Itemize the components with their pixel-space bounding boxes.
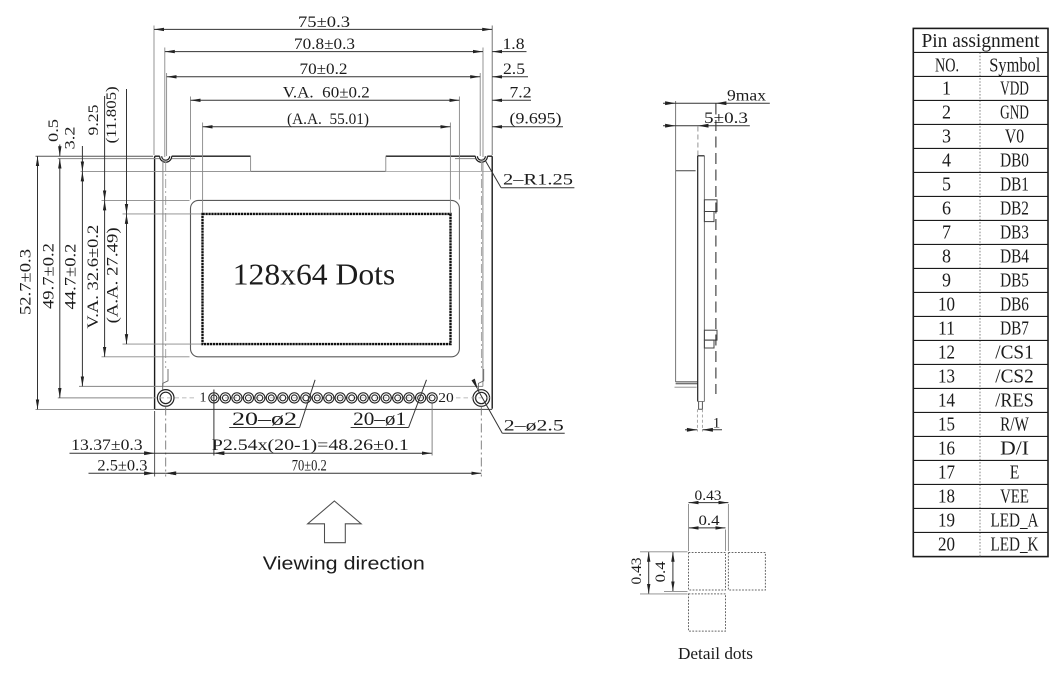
extension line VA right [458, 97, 460, 200]
pin strip below PCB [699, 402, 703, 410]
extension line VA left [190, 97, 192, 200]
svg-text:0.4: 0.4 [699, 513, 721, 529]
recess step right [385, 156, 387, 171]
svg-text:70.8±0.3: 70.8±0.3 [294, 36, 355, 53]
PIN-TABLE [913, 28, 1048, 556]
dim line V.A. 32.6±0.2 [104, 200, 106, 356]
svg-text:Pin assignment: Pin assignment [922, 30, 1040, 52]
dim 1 pin thickness [685, 429, 697, 431]
dot square 3 [689, 594, 726, 631]
extension line AA right [449, 123, 451, 214]
svg-text:/CS2: /CS2 [995, 365, 1033, 387]
svg-text:0.43: 0.43 [695, 488, 722, 504]
svg-text:19: 19 [938, 509, 955, 531]
svg-text:7.2: 7.2 [510, 85, 532, 102]
mounting hole left [157, 390, 174, 407]
dim (A.A. 55.01) [203, 126, 451, 128]
extension line glass right [479, 73, 481, 156]
svg-text:(A.A. 27.49): (A.A. 27.49) [105, 227, 122, 323]
svg-text:NO.: NO. [935, 54, 959, 76]
svg-text:E: E [1010, 461, 1020, 483]
svg-text:1.8: 1.8 [503, 36, 525, 53]
extension PCB top to left [36, 155, 154, 157]
svg-text:3.2: 3.2 [63, 127, 79, 150]
svg-text:20: 20 [438, 391, 454, 406]
PCB front extension up [697, 127, 699, 156]
bezel top flange [676, 170, 696, 172]
svg-text:2–ø2.5: 2–ø2.5 [504, 418, 564, 435]
dim 0.43 left [648, 552, 650, 594]
dim 13.37±0.3 [70, 452, 214, 454]
extension VA bottom left [102, 356, 190, 358]
svg-text:13: 13 [938, 365, 955, 387]
svg-text:20: 20 [938, 533, 955, 555]
dim 70±0.2 bottom [166, 472, 482, 474]
svg-text:(9.695): (9.695) [510, 110, 562, 127]
svg-text:9max: 9max [727, 88, 766, 105]
DETAIL-DOTS [629, 488, 765, 663]
svg-text:VDD: VDD [1000, 77, 1029, 99]
svg-text:2: 2 [942, 101, 951, 123]
dim 2.5 [492, 76, 528, 78]
svg-text:Symbol: Symbol [989, 54, 1040, 76]
svg-text:DB1: DB1 [1000, 173, 1029, 195]
bezel top edge segments [58, 158, 475, 160]
dim line 44.7±0.2 [81, 171, 83, 386]
svg-text:DB6: DB6 [1000, 293, 1029, 315]
A.A. active-area bold dotted rect [203, 214, 451, 344]
svg-text:8: 8 [942, 245, 951, 267]
dim V.A. 60±0.2 [191, 99, 460, 101]
svg-text:V.A. 32.6±0.2: V.A. 32.6±0.2 [85, 225, 102, 329]
extension PCB bottom to left [36, 408, 155, 410]
pin extension dotted right [701, 409, 703, 431]
viewing direction arrow [308, 501, 362, 543]
extension pin20 down [431, 404, 433, 456]
svg-text:/RES: /RES [995, 389, 1033, 411]
dim 75±0.3 [154, 28, 492, 30]
svg-text:2–R1.25: 2–R1.25 [503, 172, 573, 189]
extension pin1 down [213, 390, 215, 456]
FRONT-VIEW [58, 156, 492, 409]
extension line PCB right [491, 26, 493, 156]
svg-text:1: 1 [200, 391, 207, 406]
dim line 0.5 upper [59, 145, 61, 157]
PCB front face [697, 156, 699, 402]
svg-text:0.4: 0.4 [653, 561, 669, 583]
svg-text:DB4: DB4 [1000, 245, 1029, 267]
svg-text:20–ø2: 20–ø2 [232, 409, 297, 430]
bezel tab upper [704, 200, 717, 222]
extension VA top left [102, 199, 190, 201]
svg-text:1: 1 [942, 77, 951, 99]
TOP-DIMS [154, 14, 574, 213]
extension AA bottom left [123, 343, 202, 345]
bezel right edge [482, 159, 484, 387]
svg-text:18: 18 [938, 485, 955, 507]
svg-text:5: 5 [942, 173, 951, 195]
dim line 49.7±0.2 [59, 159, 61, 398]
PCB right edge [491, 156, 493, 409]
svg-text:(A.A. 55.01): (A.A. 55.01) [287, 111, 369, 128]
svg-text:70±0.2: 70±0.2 [292, 457, 327, 474]
svg-text:LED_K: LED_K [991, 533, 1039, 555]
svg-text:2.5±0.3: 2.5±0.3 [97, 457, 147, 474]
dim 0.43 top [689, 502, 729, 504]
dim 9max [663, 102, 770, 104]
hole centerline jog right [478, 369, 483, 390]
dim 70±0.2 top [167, 76, 481, 78]
svg-text:D/I: D/I [1000, 437, 1029, 459]
svg-text:P2.54x(20-1)=48.26±0.1: P2.54x(20-1)=48.26±0.1 [212, 437, 409, 454]
bezel left edge [162, 159, 164, 387]
mounting hole right [473, 390, 490, 407]
hole vertical centerline left [165, 162, 167, 368]
svg-text:9.25: 9.25 [86, 105, 102, 136]
svg-text:12: 12 [938, 341, 955, 363]
centerline dashed [715, 104, 717, 395]
dim 5±0.3 [663, 125, 750, 127]
dim 2.5±0.3 [89, 472, 166, 474]
svg-text:20–ø1: 20–ø1 [353, 409, 406, 430]
top middle recess line [251, 170, 386, 172]
dim line A.A. 27.49 [126, 214, 128, 344]
svg-text:52.7±0.3: 52.7±0.3 [18, 249, 35, 315]
dim line 52.7±0.3 [37, 156, 39, 409]
svg-text:VEE: VEE [1000, 485, 1029, 507]
LEFT-DIMS [18, 86, 202, 409]
3.2 feature line right part [386, 170, 492, 172]
svg-text:DB0: DB0 [1000, 149, 1029, 171]
svg-text:11: 11 [938, 317, 955, 339]
PCB bottom edge [155, 408, 493, 410]
svg-text:GND: GND [1000, 101, 1029, 123]
label 2-R1.25 [501, 187, 574, 189]
hole centerline jog left [163, 369, 168, 390]
extension AA top left [123, 213, 202, 215]
svg-text:2.5: 2.5 [503, 61, 525, 78]
svg-text:3: 3 [942, 125, 951, 147]
bezel bottom flange lower line [675, 386, 697, 388]
recess step left [250, 156, 252, 171]
extension line PCB left [153, 26, 155, 156]
svg-text:17: 17 [938, 461, 955, 483]
hole vertical centerline right [480, 162, 482, 368]
ext lines left dims [640, 552, 688, 594]
svg-text:DB3: DB3 [1000, 221, 1029, 243]
bezel bottom edge [79, 385, 483, 387]
pin row centerline [58, 397, 490, 399]
label 20-ø2 [229, 427, 299, 429]
svg-text:13.37±0.3: 13.37±0.3 [71, 437, 143, 454]
svg-text:9: 9 [942, 269, 951, 291]
svg-text:V0: V0 [1005, 125, 1024, 147]
svg-text:DB7: DB7 [1000, 317, 1029, 339]
extension hole left down [165, 407, 167, 477]
extension line bezel right [482, 48, 484, 158]
BOTTOM-DIMS [70, 379, 565, 477]
extension line glass left [166, 73, 168, 156]
dim P2.54x(20-1)=48.26±0.1 [214, 452, 432, 454]
dim (9.695) [492, 126, 563, 128]
svg-text:6: 6 [942, 197, 951, 219]
table outer border [913, 28, 1048, 556]
svg-text:4: 4 [942, 149, 951, 171]
svg-text:15: 15 [938, 413, 955, 435]
ext lines top dims [689, 504, 729, 551]
svg-text:R/W: R/W [1000, 413, 1029, 435]
dim line 11.805 upper [126, 89, 128, 214]
label 20-ø1 [351, 427, 409, 429]
svg-text:10: 10 [938, 293, 955, 315]
svg-text:7: 7 [942, 221, 951, 243]
dim 0.4 left [672, 552, 674, 592]
PCB left edge [154, 156, 156, 409]
table column divider [979, 52, 981, 556]
label 2-ø2.5 [502, 432, 564, 434]
extension line AA left [202, 123, 204, 214]
svg-text:16: 16 [938, 437, 955, 459]
PCB outline top edge [155, 155, 493, 157]
svg-text:70±0.2: 70±0.2 [300, 61, 348, 78]
svg-text:Viewing direction: Viewing direction [263, 553, 425, 574]
PCB bottom edge [698, 401, 705, 403]
extension hole right down [480, 407, 482, 477]
bezel bottom flange [676, 382, 698, 384]
svg-text:DB5: DB5 [1000, 269, 1029, 291]
svg-text:5±0.3: 5±0.3 [704, 110, 748, 127]
bezel front face line [675, 101, 677, 382]
dim 0.4 top [689, 527, 726, 529]
PCB back face [703, 156, 705, 402]
svg-text:44.7±0.2: 44.7±0.2 [62, 244, 79, 310]
dot square 1 [689, 553, 726, 591]
svg-text:49.7±0.2: 49.7±0.2 [40, 243, 57, 309]
svg-text:Detail dots: Detail dots [678, 644, 753, 663]
bezel tab lower [704, 330, 717, 348]
svg-text:(11.805): (11.805) [104, 86, 120, 143]
pin extension dotted left [696, 409, 698, 431]
svg-text:0.43: 0.43 [629, 558, 645, 585]
3.2 feature line [81, 170, 251, 172]
svg-text:LED_A: LED_A [991, 509, 1039, 531]
pin holes 1-20 [209, 393, 438, 403]
dim line 3.2 upper [81, 146, 83, 171]
svg-text:/CS1: /CS1 [995, 341, 1033, 363]
svg-text:1: 1 [713, 415, 721, 431]
table row lines [913, 52, 1048, 532]
dim 70.8±0.3 [165, 51, 483, 53]
VIEWING-ARROW [263, 501, 425, 574]
svg-text:128x64 Dots: 128x64 Dots [233, 257, 396, 292]
dot square 2 [728, 553, 765, 591]
svg-text:75±0.3: 75±0.3 [298, 14, 350, 31]
extension PCB left edge down [154, 411, 156, 477]
dim line 9.25 upper [104, 96, 106, 200]
dim 1.8 [492, 51, 526, 53]
dim 7.2 [492, 99, 531, 101]
SIDE-VIEW [663, 88, 770, 432]
PCB top edge [698, 155, 705, 157]
svg-text:14: 14 [938, 389, 955, 411]
svg-text:V.A. 60±0.2: V.A. 60±0.2 [283, 85, 370, 102]
V.A. window rounded rect [191, 200, 460, 356]
extension line bezel left [164, 48, 166, 158]
svg-text:DB2: DB2 [1000, 197, 1029, 219]
svg-text:0.5: 0.5 [46, 119, 62, 142]
notch left 2-R1.25 [160, 156, 172, 162]
notch right 2-R1.25 [475, 156, 487, 162]
